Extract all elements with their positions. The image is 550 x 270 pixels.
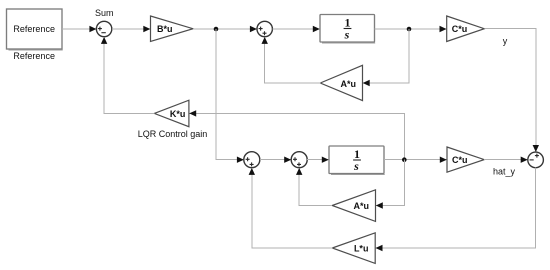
wire u junction to sum3 [216, 29, 244, 163]
junction node u (B*u output) [214, 27, 219, 32]
junction node xhat (observer state) [402, 157, 407, 162]
wire xhat junction to lower A*u [376, 160, 405, 209]
wire A*u to sum2 bottom [262, 37, 321, 83]
sum block sum2 [257, 21, 272, 36]
sum block Sum [96, 21, 111, 36]
svg-text:B*u: B*u [157, 24, 173, 34]
svg-text:hat_y: hat_y [493, 167, 516, 177]
wire sum2 to integrator 1/s [272, 26, 319, 32]
junction node x (state) [407, 27, 412, 32]
svg-text:L*u: L*u [354, 244, 369, 254]
gain C*u (observer output) [447, 147, 484, 172]
wire lower C*u to sum5 (signal hat_y) [484, 157, 528, 163]
wire integrator to gain C*u [375, 26, 447, 32]
svg-text:Reference: Reference [13, 24, 55, 34]
wire sum3 to sum4 [260, 157, 291, 163]
sum block sum4 [291, 152, 307, 168]
wire integrator2 to lower C*u [384, 157, 447, 163]
wire Reference to Sum [62, 26, 96, 32]
wire sum4 to integrator2 [307, 157, 329, 163]
gain L*u (observer gain) [332, 233, 375, 264]
svg-text:Sum: Sum [95, 8, 114, 18]
svg-text:K*u: K*u [170, 109, 186, 119]
svg-text:s: s [344, 27, 350, 41]
gain A*u (observer) [332, 190, 375, 222]
svg-text:LQR Control gain: LQR Control gain [138, 129, 208, 139]
sum block sum3 (observer input sum) [244, 152, 260, 168]
wire x junction to gain A*u [363, 29, 409, 86]
svg-text:A*u: A*u [341, 79, 357, 89]
gain A*u [320, 65, 362, 100]
sum block sum5 (y minus hat_y) [528, 152, 544, 168]
wire Sum to gain B*u [112, 26, 151, 32]
integrator block 1/s (plant) [320, 15, 375, 44]
wire K*u to Sum bottom [101, 37, 154, 114]
wire L*u to sum3 bottom [249, 168, 333, 248]
source block Reference [7, 9, 63, 50]
svg-text:s: s [353, 159, 359, 173]
integrator block 1/s (observer) [329, 146, 385, 175]
gain K*u (LQR state feedback) [154, 100, 189, 127]
svg-text:y: y [503, 36, 508, 46]
svg-text:C*u: C*u [452, 155, 468, 165]
wire lower A*u to sum4 bottom [296, 168, 332, 206]
wire xhat junction to gain K*u [189, 110, 404, 160]
svg-text:A*u: A*u [354, 201, 370, 211]
svg-text:Reference: Reference [13, 51, 55, 61]
wire sum5 to gain L*u [376, 168, 536, 252]
gain C*u [447, 16, 485, 42]
wire C*u to sum5 (signal y) [484, 29, 539, 152]
gain B*u [151, 16, 194, 42]
wire B*u to sum2 [193, 26, 257, 32]
svg-text:C*u: C*u [452, 24, 468, 34]
